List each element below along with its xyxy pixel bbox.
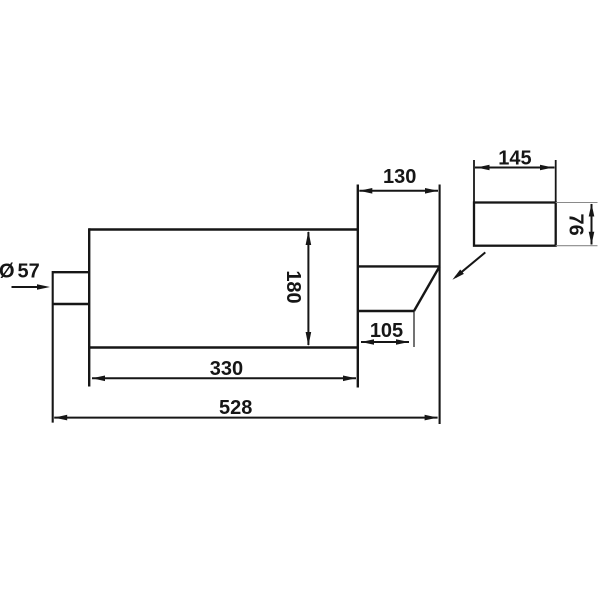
inlet pipe bottom edge bbox=[53, 303, 89, 305]
svg-text:145: 145 bbox=[498, 148, 531, 170]
76 dimension line bbox=[591, 204, 593, 245]
outlet 105 extension line bbox=[413, 311, 415, 347]
outlet top edge bbox=[358, 265, 440, 267]
right long extension line (130/528) bbox=[439, 185, 441, 425]
145 left arrowhead bbox=[477, 165, 490, 171]
inlet pipe top edge bbox=[53, 271, 89, 273]
pointer arrow line bbox=[455, 252, 485, 277]
svg-text:76: 76 bbox=[565, 213, 587, 235]
145 dimension line bbox=[475, 167, 555, 169]
180 bottom arrowhead bbox=[306, 332, 312, 346]
svg-text:330: 330 bbox=[210, 358, 243, 380]
svg-text:130: 130 bbox=[383, 166, 416, 188]
muffler body right edge + 130/330 extensions bbox=[357, 185, 359, 388]
76 bottom arrowhead bbox=[589, 232, 595, 245]
tail pipe detail rectangle bbox=[474, 203, 556, 246]
outlet bottom edge bbox=[358, 310, 414, 312]
muffler body top edge bbox=[89, 228, 358, 230]
dia 57 leader line bbox=[12, 286, 46, 288]
105 dimension line bbox=[361, 341, 409, 343]
svg-text:528: 528 bbox=[219, 397, 252, 419]
76 top arrowhead bbox=[589, 204, 595, 217]
130 left arrowhead bbox=[359, 188, 372, 194]
130 right arrowhead bbox=[425, 188, 438, 194]
330 right arrowhead bbox=[343, 376, 356, 382]
svg-text:105: 105 bbox=[370, 320, 403, 342]
145 right extension bbox=[555, 160, 557, 203]
528 dimension line bbox=[54, 417, 437, 419]
svg-text:Ø: Ø bbox=[0, 261, 15, 283]
130 dimension line bbox=[359, 190, 438, 192]
528 left arrowhead bbox=[54, 415, 67, 421]
330 left arrowhead bbox=[92, 376, 105, 382]
pointer arrowhead bbox=[452, 270, 464, 280]
76 bottom extension bbox=[556, 245, 598, 247]
145 right arrowhead bbox=[540, 165, 553, 171]
528 right arrowhead bbox=[425, 415, 438, 421]
muffler body left edge + 330 left extension bbox=[88, 228, 90, 386]
svg-text:180: 180 bbox=[282, 270, 304, 303]
180 top arrowhead bbox=[306, 231, 312, 245]
105 right arrowhead bbox=[396, 339, 409, 345]
105 left arrowhead bbox=[361, 339, 374, 345]
muffler body bottom edge bbox=[89, 346, 358, 348]
330 dimension line bbox=[92, 377, 356, 379]
dia 57 arrowhead bbox=[37, 284, 50, 290]
180 dimension line bbox=[307, 232, 309, 345]
inlet pipe left edge + 528 left extension line bbox=[52, 271, 54, 423]
svg-text:57: 57 bbox=[18, 261, 40, 283]
76 top extension bbox=[556, 202, 598, 204]
outlet slanted end bbox=[414, 266, 440, 311]
145 left extension bbox=[473, 160, 475, 203]
